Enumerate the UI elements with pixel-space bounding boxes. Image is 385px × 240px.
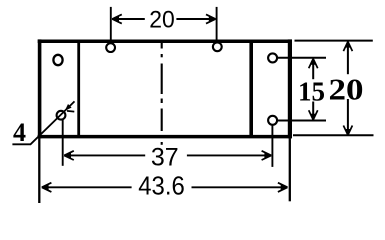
dimension 37: left arrow xyxy=(64,151,74,160)
dimension 43.6: dimension line xyxy=(42,186,286,188)
dimension 20 right: up arrow xyxy=(343,41,352,51)
dimension 15 right: extension lines xyxy=(277,58,326,121)
svg-text:4: 4 xyxy=(13,118,26,147)
dimension 37: dimension line xyxy=(64,154,271,156)
dimension 37: extension lines xyxy=(63,119,273,167)
dimension 15 right: up arrow xyxy=(309,58,318,68)
hole H2 top-left xyxy=(106,43,115,52)
leader line from label 4 to hole H6 xyxy=(12,101,74,144)
dimension 43.6: right arrow xyxy=(278,183,288,192)
hole H5 right-lower xyxy=(268,116,277,125)
dimension 20 top: left arrow xyxy=(112,14,122,23)
svg-text:20: 20 xyxy=(149,6,175,33)
hole H1 upper-left xyxy=(53,55,62,65)
plate outline: bottom edge xyxy=(38,135,292,139)
dimension 15 right: dimension line xyxy=(312,60,314,120)
plate outline: top edge xyxy=(38,39,292,43)
center line (dash-dot) xyxy=(161,43,163,145)
dimension 37: right arrow xyxy=(262,151,272,160)
dimension 20 right: down arrow xyxy=(343,126,352,136)
dimension 20 top: right arrow xyxy=(206,14,216,23)
plate outline: left edge xyxy=(38,39,42,138)
dimension 20 top: extension lines xyxy=(111,7,217,43)
dimension 43.6: left arrow xyxy=(42,183,52,192)
dimension 20 right: dimension line xyxy=(347,42,349,135)
dimension 43.6: extension lines xyxy=(39,139,289,204)
hole H3 top-right xyxy=(213,42,222,51)
dimension 20 top: dimension line xyxy=(112,18,215,20)
hole H4 right-upper xyxy=(268,53,277,62)
svg-text:20: 20 xyxy=(329,72,364,107)
dimension 20 right: extension lines xyxy=(293,41,374,136)
hole H6 bottom-left xyxy=(57,111,66,120)
leader arrowhead at hole H6 xyxy=(65,104,72,111)
svg-text:15: 15 xyxy=(298,77,325,107)
inner vertical line left xyxy=(77,41,80,136)
plate outline: right edge xyxy=(288,39,292,138)
inner vertical line right xyxy=(249,41,253,136)
svg-text:43.6: 43.6 xyxy=(138,173,185,201)
svg-text:37: 37 xyxy=(151,143,179,171)
dimension 15 right: down arrow xyxy=(309,110,318,120)
